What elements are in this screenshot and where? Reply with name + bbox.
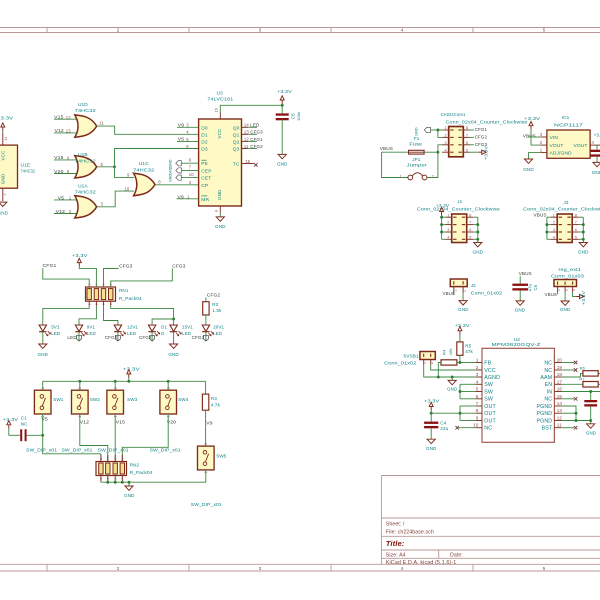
svg-text:5: 5: [575, 235, 577, 239]
svg-text:PE: PE: [201, 161, 208, 167]
svg-text:V15: V15: [116, 419, 126, 424]
wire fuse to CH224 pin4: [424, 151, 438, 153]
svg-text:5: 5: [466, 148, 468, 152]
wire +3.3V to RN1 pin7: [79, 267, 96, 287]
svg-text:Conn_02x04_Counter_Clockwise: Conn_02x04_Counter_Clockwise: [523, 207, 600, 212]
junction J1 pin7: [476, 223, 479, 226]
svg-text:D3: D3: [201, 147, 208, 153]
svg-text:CFG2: CFG2: [139, 335, 152, 340]
wire U1A input 2: [54, 213, 78, 215]
svg-text:SW3: SW3: [127, 397, 138, 402]
svg-text:SW_DIP_x01: SW_DIP_x01: [150, 448, 181, 453]
svg-text:9: 9: [476, 416, 479, 421]
svg-text:J1: J1: [457, 199, 462, 204]
svg-text:8: 8: [87, 283, 91, 285]
svg-text:14: 14: [557, 401, 563, 406]
wire GND label to U3 pin 9: [181, 162, 198, 164]
junction SW2 top: [78, 380, 81, 383]
wire R4 to AGND: [438, 363, 441, 378]
wire R4 to FB node: [457, 362, 460, 364]
svg-text:CH224Core1: CH224Core1: [441, 112, 466, 117]
wire U1D input 13: [54, 132, 78, 134]
svg-text:16: 16: [214, 108, 218, 112]
svg-text:100n: 100n: [296, 112, 301, 121]
svg-text:2: 2: [463, 290, 467, 292]
svg-text:OUT: OUT: [484, 404, 496, 410]
svg-text:D1: D1: [201, 132, 208, 138]
svg-text:+3.3V: +3.3V: [123, 366, 141, 371]
svg-text:7: 7: [106, 458, 110, 460]
svg-text:+3.3V: +3.3V: [455, 323, 471, 328]
wire U3 VCC to +3.3V: [220, 105, 282, 112]
svg-text:GND: GND: [560, 307, 571, 312]
svg-text:+3.3V: +3.3V: [277, 89, 292, 94]
svg-text:22u: 22u: [440, 426, 448, 431]
svg-text:10: 10: [473, 423, 479, 428]
led D1: [151, 320, 153, 325]
svg-text:IN: IN: [547, 389, 553, 395]
junction J1 pin1: [440, 216, 443, 219]
svg-text:U1B: U1B: [78, 152, 88, 158]
junction J3 pin6: [582, 231, 585, 234]
svg-text:+3.3V: +3.3V: [524, 116, 541, 121]
wire capacitor to ground (clipped): [596, 157, 598, 163]
wire to ground: [128, 482, 130, 486]
sheet frame: [0, 27, 600, 29]
svg-text:13: 13: [557, 408, 563, 413]
fuse F1: [409, 150, 425, 154]
wire +3.3V to C5: [281, 105, 283, 113]
led 12V1: [117, 320, 119, 325]
svg-text:+3.3V: +3.3V: [436, 203, 450, 208]
ground (IC1 output cap, clipped): [593, 162, 600, 166]
ground (RN2): [125, 486, 133, 490]
ground (U3): [216, 217, 224, 221]
svg-text:IC1: IC1: [562, 115, 570, 121]
svg-text:VBUS: VBUS: [443, 291, 456, 296]
ground (15V1): [170, 344, 178, 348]
svg-text:4: 4: [401, 566, 404, 571]
svg-text:6: 6: [575, 228, 577, 232]
svg-text:GND: GND: [515, 308, 526, 313]
svg-text:LED: LED: [250, 123, 260, 128]
svg-text:11: 11: [99, 121, 104, 126]
svg-text:7: 7: [476, 401, 479, 406]
svg-text:GND: GND: [523, 167, 534, 172]
svg-text:C5: C5: [291, 113, 296, 119]
ground (U1E): [0, 202, 7, 206]
svg-text:Conn_02x04_Counter_Clockwise: Conn_02x04_Counter_Clockwise: [446, 119, 528, 124]
wire LED 12V1 to CFG2 label: [117, 332, 119, 341]
svg-text:4: 4: [445, 148, 447, 152]
junction RN2 pin4: [121, 481, 124, 484]
ground (IC1): [524, 159, 532, 163]
svg-text:Sheet: /: Sheet: /: [386, 521, 405, 527]
svg-text:20V1: 20V1: [213, 325, 224, 330]
svg-text:Fuse: Fuse: [409, 142, 422, 147]
node CFG3 (20V1 cathode): [203, 336, 208, 342]
svg-text:7: 7: [575, 221, 577, 225]
wire CFG2 to R2: [205, 297, 207, 301]
node GND label (U3 pin 9): [176, 161, 182, 166]
svg-text:1: 1: [204, 443, 208, 445]
svg-text:VOUT: VOUT: [550, 143, 564, 149]
svg-text:SW1: SW1: [53, 397, 64, 402]
svg-text:6: 6: [102, 283, 106, 285]
power +3.3V (reg_ext1 pin3): [573, 292, 576, 297]
svg-text:GND: GND: [458, 307, 469, 312]
wire V5 to U3 D2: [177, 140, 199, 142]
svg-text:VCC: VCC: [484, 368, 496, 374]
svg-text:CP: CP: [201, 183, 208, 189]
ground (J3): [579, 243, 587, 247]
wire D1 to CFG2 label: [151, 332, 153, 341]
svg-text:5: 5: [109, 283, 113, 285]
node GND label (U3 pin 10): [176, 175, 182, 180]
svg-text:D1: D1: [161, 325, 167, 330]
resistor R3 4.7k: [202, 394, 208, 410]
wire U2 IN (clipped): [561, 391, 600, 393]
wire +3.3V to IC1 VOUT pin2: [531, 130, 540, 145]
svg-text:JP1: JP1: [412, 157, 421, 162]
svg-text:VBUS: VBUS: [523, 134, 536, 139]
ground (C4): [427, 439, 435, 443]
svg-text:GND: GND: [586, 431, 596, 436]
svg-text:1: 1: [41, 387, 45, 389]
wire RN1 pin4 to D1 / LED 15V1: [111, 306, 174, 319]
svg-text:19: 19: [557, 365, 563, 370]
resistor R7: [583, 382, 598, 388]
svg-text:R7: R7: [579, 377, 585, 382]
svg-text:1: 1: [78, 387, 82, 389]
switch SW5 SW_DIP_x01: [198, 446, 215, 470]
svg-text:SW: SW: [484, 382, 493, 388]
junction IN / input cap: [589, 390, 592, 393]
junction J1 pin3: [440, 231, 443, 234]
svg-text:SW4: SW4: [178, 397, 189, 402]
junction J3 pin5: [582, 238, 585, 241]
svg-text:U1C: U1C: [139, 161, 149, 167]
svg-text:13: 13: [244, 130, 249, 135]
svg-text:12: 12: [244, 137, 249, 142]
svg-text:CFG3: CFG3: [250, 130, 263, 135]
resistor R5 47k: [457, 342, 463, 355]
svg-text:CFG1: CFG1: [43, 263, 57, 268]
svg-text:Size: A4: Size: A4: [386, 552, 406, 558]
junction CH224 pin1: [436, 129, 439, 132]
svg-text:Q0: Q0: [233, 125, 240, 131]
svg-text:U1E: U1E: [21, 162, 31, 168]
svg-text:3: 3: [572, 289, 576, 291]
svg-text:F1: F1: [414, 136, 420, 141]
svg-text:+3.3V: +3.3V: [424, 398, 440, 403]
svg-text:3: 3: [259, 28, 262, 33]
svg-text:GND: GND: [168, 352, 179, 357]
IC U1E 74HC32 power unit: [2, 132, 4, 145]
svg-text:LED: LED: [67, 335, 77, 340]
svg-text:GND: GND: [168, 174, 172, 182]
junction AGND ground tap: [451, 376, 454, 379]
wire C6 to ground: [519, 291, 521, 301]
svg-text:Conn_01x03: Conn_01x03: [551, 273, 584, 278]
svg-text:R5: R5: [465, 343, 471, 348]
wire GND label to pins 1-2: [430, 129, 438, 131]
svg-text:16k: 16k: [448, 348, 453, 355]
svg-text:3: 3: [447, 228, 449, 232]
junction U1B output node: [113, 165, 116, 168]
svg-text:4.7k: 4.7k: [211, 402, 221, 407]
svg-text:5: 5: [543, 28, 546, 33]
svg-text:CFG2: CFG2: [207, 293, 221, 298]
junction CH224 pin4 / VBUS: [436, 151, 439, 154]
wire FB node to U2 FB: [460, 362, 475, 364]
ground (J2): [459, 301, 467, 305]
svg-text:6: 6: [113, 458, 117, 460]
wire bus to SW3: [114, 381, 116, 390]
wire R3 to SW5 / node V9: [205, 410, 207, 446]
junction PGND / cap: [589, 419, 592, 422]
svg-text:R4: R4: [442, 349, 447, 355]
svg-text:J2: J2: [471, 283, 476, 288]
ground (U2 PGND): [587, 424, 595, 428]
svg-text:+3.3V: +3.3V: [483, 146, 488, 160]
svg-text:5: 5: [476, 387, 479, 392]
wire U2 EN to R7: [561, 383, 583, 385]
wire C1 to SW1 net: [27, 434, 43, 436]
no-connect U2 pin20: [561, 362, 574, 364]
ground (C5): [278, 154, 286, 158]
ground (reg_ext1): [561, 301, 569, 305]
svg-text:SW5: SW5: [216, 453, 227, 458]
svg-text:CFG2: CFG2: [250, 144, 263, 149]
wire 5VSB1 pin1 to AGND row: [424, 365, 476, 377]
svg-text:MPM3620GQV-Z: MPM3620GQV-Z: [492, 342, 541, 348]
svg-text:NC: NC: [544, 368, 552, 374]
svg-text:VCC: VCC: [217, 128, 222, 139]
wire 5VSB1 pin2 to VCC: [431, 365, 476, 370]
svg-text:NC: NC: [544, 360, 552, 366]
svg-text:SW_DIP_x01: SW_DIP_x01: [191, 502, 222, 507]
svg-text:Jumper: Jumper: [407, 163, 428, 168]
svg-text:11: 11: [557, 423, 562, 428]
svg-text:6: 6: [476, 394, 479, 399]
svg-text:CFG3: CFG3: [172, 264, 186, 269]
wire SW1 to RN2 pin8: [43, 414, 101, 462]
power +3.3V (U3): [281, 100, 283, 104]
svg-text:1.5k: 1.5k: [212, 308, 222, 313]
svg-text:1: 1: [400, 174, 402, 178]
wire CFG3 to RN1 pin5: [111, 269, 173, 288]
pin 14 (U3) / node LED: [242, 126, 249, 128]
pin 13 (U3) / node CFG3: [242, 133, 249, 135]
svg-text:GND: GND: [168, 159, 172, 167]
svg-text:6: 6: [469, 228, 471, 232]
svg-text:U1A: U1A: [78, 184, 88, 190]
svg-text:LED: LED: [182, 331, 192, 336]
svg-text:5: 5: [469, 235, 471, 239]
svg-text:11: 11: [244, 144, 249, 149]
svg-text:VOUT: VOUT: [574, 143, 588, 149]
svg-text:4: 4: [401, 28, 404, 33]
svg-text:GND: GND: [426, 446, 437, 451]
wire RN1 pin2 to LED 9V1: [79, 306, 96, 321]
svg-text:4: 4: [447, 235, 449, 239]
svg-text:2: 2: [430, 362, 434, 364]
svg-text:SW: SW: [484, 397, 493, 403]
svg-text:3: 3: [553, 228, 555, 232]
svg-text:15: 15: [245, 159, 250, 164]
svg-text:74HC32: 74HC32: [75, 158, 96, 164]
svg-text:+3.3V: +3.3V: [594, 132, 600, 137]
wire U1B output to U1C pin 9: [115, 167, 135, 178]
svg-text:1: 1: [113, 387, 117, 389]
wire IC1 ADJ/GND to ground: [529, 153, 541, 159]
svg-text:2: 2: [476, 365, 479, 370]
svg-text:V12: V12: [80, 419, 90, 424]
svg-text:8: 8: [476, 408, 479, 413]
svg-text:RN1: RN1: [119, 288, 129, 293]
wire junction to D1: [152, 319, 174, 320]
svg-text:VBUS: VBUS: [545, 292, 558, 297]
capacitor (IC1 output, clipped): [591, 150, 600, 152]
svg-text:3: 3: [259, 566, 262, 571]
wire LED 15V1 to ground: [173, 332, 175, 344]
svg-text:R_Pack04: R_Pack04: [119, 296, 142, 301]
svg-text:OUT: OUT: [484, 418, 496, 424]
wire R7 right (clipped): [598, 383, 600, 385]
node VBUS (J2 pin1): [453, 293, 455, 294]
pin 15 (U3 TC) no-connect: [242, 163, 254, 165]
svg-text:1: 1: [553, 213, 555, 217]
pin 8 (U3 GND): [219, 206, 221, 213]
svg-text:Conn_01x02: Conn_01x02: [384, 361, 417, 366]
svg-text:GND: GND: [217, 189, 222, 200]
svg-text:Q3: Q3: [233, 147, 240, 153]
svg-text:Conn_02x04_Counter_Clockwise: Conn_02x04_Counter_Clockwise: [417, 207, 500, 212]
svg-text:+3.3V: +3.3V: [0, 115, 14, 120]
svg-text:RN2: RN2: [130, 463, 140, 468]
wire +3.3V bus to J1 pins 1-4: [441, 216, 443, 240]
junction J3 pin2: [545, 223, 548, 226]
ground (J1): [474, 243, 482, 247]
wire GND label to U3 pin 10: [181, 177, 198, 179]
junction PGND pin13: [575, 412, 578, 415]
wire RN1 pin3 to LED 12V1: [104, 306, 118, 321]
svg-text:SW_DIP_x01: SW_DIP_x01: [98, 448, 129, 453]
junction +3.3V tap: [127, 380, 130, 383]
pin 4 (IC1 VOUT right): [590, 144, 600, 146]
wire +3.3V switch bus: [43, 380, 206, 382]
wire V9 to U3 D0: [177, 126, 199, 128]
wire PGND to ground: [590, 421, 592, 424]
svg-text:EN: EN: [545, 382, 553, 388]
svg-text:9V1: 9V1: [87, 325, 96, 330]
svg-text:NC: NC: [544, 397, 552, 403]
pin 12 (U3) / node CFG1: [242, 140, 249, 142]
junction RN2 pin2: [106, 481, 109, 484]
wire U2 AAM to R6: [561, 373, 583, 377]
led 9V1: [78, 320, 80, 325]
svg-text:7: 7: [3, 193, 7, 195]
svg-text:MR: MR: [201, 197, 209, 203]
svg-text:CFG3: CFG3: [192, 335, 205, 340]
pin 7 (U1E GND): [2, 188, 4, 201]
wire pins 3-4 tie: [438, 145, 442, 152]
ground (C6): [516, 301, 524, 305]
svg-text:File: ch224base.sch: File: ch224base.sch: [386, 529, 434, 535]
svg-text:SW: SW: [484, 389, 493, 395]
wire RN2 ground bus: [101, 481, 129, 483]
svg-text:2: 2: [447, 221, 449, 225]
svg-text:VBUS: VBUS: [533, 213, 546, 218]
wire U2 SW pins tie: [459, 384, 461, 399]
resistor R4: [441, 360, 457, 365]
wire VBUS to C6: [519, 276, 521, 283]
svg-text:1: 1: [445, 126, 447, 130]
resistor pack RN2 R_Pack04: [100, 455, 102, 462]
wire U1B input 5: [54, 173, 78, 175]
led 15V1: [173, 320, 175, 325]
svg-text:12: 12: [557, 416, 563, 421]
svg-text:5VSB1: 5VSB1: [404, 354, 420, 359]
svg-text:VIN: VIN: [550, 135, 559, 141]
wire J3 pins 5-8 to ground bus: [582, 217, 584, 242]
svg-text:GND: GND: [473, 249, 484, 254]
title block: [380, 476, 382, 565]
svg-text:6: 6: [466, 141, 468, 145]
junction J1 pin6: [476, 231, 479, 234]
wire SW4 to RN2 pin5: [122, 414, 168, 462]
wire LED 20V1 to CFG3 label: [205, 332, 207, 341]
svg-text:3: 3: [476, 372, 479, 377]
svg-text:V9: V9: [206, 420, 213, 425]
wire +3.3V to C1: [8, 429, 10, 436]
svg-text:VCC: VCC: [1, 150, 6, 161]
wire VBUS to IC1 VIN: [528, 136, 541, 138]
svg-text:VBUS: VBUS: [380, 146, 393, 151]
svg-text:1: 1: [447, 213, 449, 217]
svg-text:20: 20: [557, 358, 563, 363]
svg-text:D0: D0: [201, 125, 208, 131]
or-gate U1A 74HC32: [75, 196, 97, 218]
no-connect U2 pin11 BST: [561, 427, 574, 429]
svg-text:2: 2: [565, 289, 569, 291]
svg-text:2: 2: [117, 28, 120, 33]
svg-text:8: 8: [575, 213, 577, 217]
svg-text:+3.3V: +3.3V: [72, 253, 89, 258]
svg-text:74HC32: 74HC32: [133, 168, 154, 174]
svg-text:8: 8: [466, 126, 468, 130]
svg-text:8: 8: [469, 213, 471, 217]
svg-text:PGND: PGND: [536, 404, 552, 410]
node VBUS (reg_ext1 pin1): [557, 292, 559, 294]
wire VBUS to JP1 pin1: [382, 152, 409, 177]
resistor R6: [583, 371, 598, 376]
node CFG2 (D1 cathode): [150, 336, 155, 342]
svg-text:LED: LED: [213, 331, 223, 336]
svg-text:SW2: SW2: [90, 397, 101, 402]
svg-text:74HC32: 74HC32: [21, 169, 36, 175]
resistor pack RN1 R_Pack04: [86, 287, 116, 301]
svg-text:GND: GND: [415, 127, 419, 136]
svg-text:18: 18: [557, 372, 563, 377]
svg-text:14: 14: [244, 123, 249, 128]
svg-text:74LVC161: 74LVC161: [207, 97, 233, 103]
or-gate U1D 74HC32: [75, 115, 97, 137]
wire reg_ext1 pin2 to ground: [564, 292, 566, 301]
junction +3.3V / C5: [281, 104, 284, 107]
wire C4 to ground: [430, 428, 432, 439]
